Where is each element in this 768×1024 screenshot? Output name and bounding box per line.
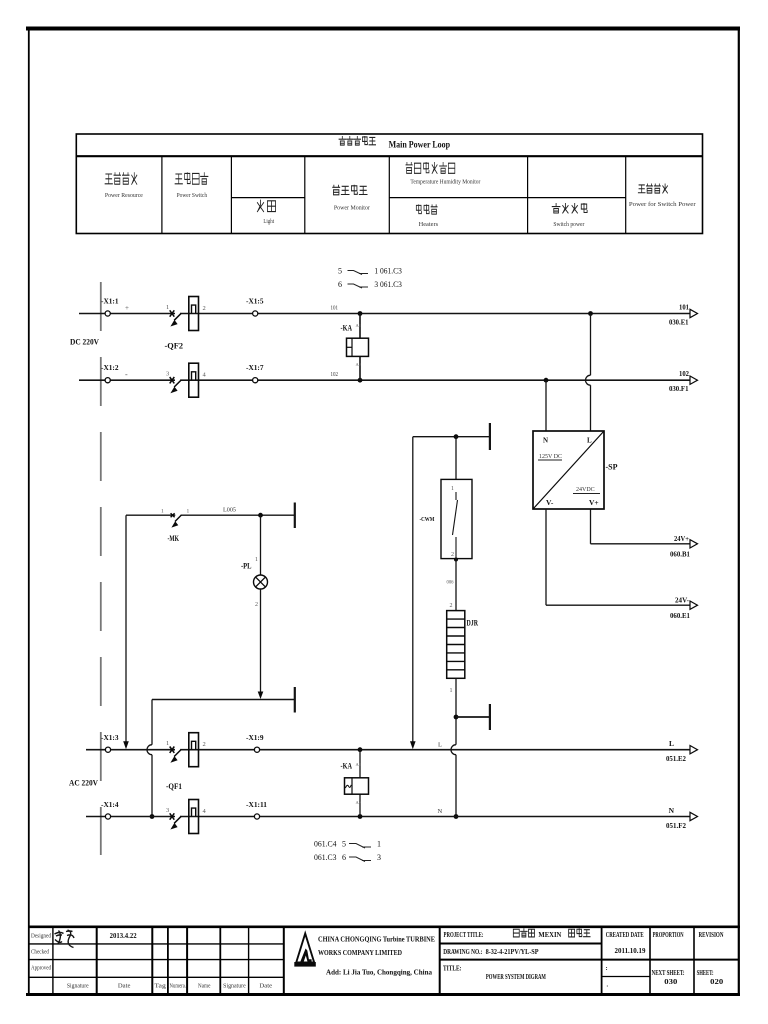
wire 24V- output — [546, 509, 690, 605]
svg-text:V-: V- — [546, 498, 554, 507]
svg-text:6: 6 — [342, 853, 346, 862]
svg-text:-QF1: -QF1 — [166, 782, 182, 791]
svg-text:A2: A2 — [356, 362, 362, 367]
svg-text:061.C3: 061.C3 — [314, 853, 337, 862]
terminal X1:4 — [101, 802, 119, 819]
svg-text:030.F1: 030.F1 — [669, 384, 689, 393]
svg-text:030: 030 — [664, 978, 678, 986]
svg-text:-X1:11: -X1:11 — [246, 802, 268, 809]
svg-text:Designed: Designed — [31, 934, 51, 940]
svg-text:DJR: DJR — [467, 619, 479, 628]
node: L rail / relay KA(AC) — [358, 747, 363, 752]
page link arrow 24V- to 060.E1 — [670, 595, 698, 620]
breaker QF2 pole 2 (pins 3-4) — [166, 363, 207, 397]
svg-text:101: 101 — [331, 306, 339, 312]
svg-text:DRAWING NO.:: DRAWING NO.: — [443, 948, 482, 956]
svg-text:A2: A2 — [356, 800, 362, 805]
wire 24V+ output — [591, 509, 691, 544]
svg-text:061.C4: 061.C4 — [314, 840, 337, 849]
svg-text:3: 3 — [166, 371, 169, 378]
svg-text:POWER SYSTEM DIGRAM: POWER SYSTEM DIGRAM — [486, 972, 546, 981]
svg-text:Name: Name — [198, 983, 211, 989]
contact cross-reference QF2 aux 6-3 to 061.C3 — [338, 280, 402, 289]
node: DJR return on N rail — [454, 814, 459, 819]
bus terminator stub (heater spare) — [456, 716, 490, 718]
terminal X1:2 — [101, 365, 119, 383]
svg-text:1: 1 — [161, 509, 164, 515]
svg-text:-X1:1: -X1:1 — [101, 299, 119, 306]
svg-text:1: 1 — [166, 304, 169, 311]
svg-text:WORKS COMPANY LIMITED: WORKS COMPANY LIMITED — [318, 948, 402, 957]
svg-text:-X1:7: -X1:7 — [246, 365, 264, 372]
wire N (AC neutral rail) — [86, 816, 690, 818]
svg-text:L005: L005 — [223, 507, 236, 514]
wire 102 (DC negative rail) — [79, 379, 690, 381]
wire 101 (DC positive rail) — [79, 313, 690, 315]
svg-text:N: N — [543, 437, 548, 445]
title block — [28, 927, 740, 993]
terminal X1:1 — [101, 299, 119, 317]
wire: lamp return to N — [147, 700, 295, 817]
svg-text:CHINA CHONGQING Turbine TURBIN: CHINA CHONGQING Turbine TURBINE — [318, 935, 435, 944]
sheet cell — [697, 970, 724, 986]
node: heater stub junction — [454, 715, 459, 720]
svg-text:8-32-4-21PV/YL-SP: 8-32-4-21PV/YL-SP — [486, 948, 540, 956]
svg-text:Checked: Checked — [31, 950, 49, 956]
contact cross-reference 061.C4 5-1 — [314, 840, 381, 849]
terminal X1:5 — [246, 299, 264, 317]
bus terminator stub (lighting feed) — [294, 503, 296, 529]
svg-text:1: 1 — [450, 688, 453, 694]
svg-text:Add: Li Jia Tuo, Chongqing, Ch: Add: Li Jia Tuo, Chongqing, China — [326, 970, 433, 977]
terminal X1:7 — [246, 365, 264, 383]
svg-text:Power Switch: Power Switch — [177, 192, 208, 199]
node: wire101 / relay KA branch — [358, 311, 363, 316]
node: lamp return on N rail — [150, 814, 155, 819]
wire: 101 to SP pin L (hops wire 102) — [586, 314, 591, 432]
svg-text:N: N — [438, 808, 443, 815]
svg-text:Signature: Signature — [67, 983, 89, 989]
wire: heater branch top (from L riser) — [410, 437, 490, 750]
svg-text:060.B1: 060.B1 — [670, 550, 690, 559]
svg-text:24V+: 24V+ — [674, 534, 689, 543]
lamp PL (panel light) — [241, 515, 268, 699]
svg-text:102: 102 — [331, 372, 339, 378]
svg-text:125V DC: 125V DC — [539, 454, 562, 460]
svg-text:MEXIN: MEXIN — [538, 931, 561, 939]
svg-text:CREATED DATE: CREATED DATE — [606, 932, 644, 939]
svg-text:Power Resource: Power Resource — [105, 192, 143, 199]
breaker QF1 pole 2 (pins 3-4) — [166, 800, 207, 834]
svg-text:1: 1 — [451, 486, 454, 492]
svg-text:L: L — [669, 739, 674, 748]
wire: 102 to SP pin N — [545, 380, 547, 431]
svg-text:2: 2 — [450, 603, 453, 609]
svg-text:L: L — [438, 742, 442, 749]
svg-text:-X1:2: -X1:2 — [101, 365, 119, 372]
svg-text:TITLE:: TITLE: — [443, 965, 462, 973]
terminal X1:9 — [246, 735, 264, 752]
power supply module SP (125VDC to 24VDC) — [533, 431, 604, 509]
node: wire102 / relay KA branch — [358, 378, 363, 383]
svg-text:-QF2: -QF2 — [165, 342, 184, 351]
svg-text:AC 220V: AC 220V — [69, 779, 98, 788]
svg-text:DC 220V: DC 220V — [70, 338, 99, 347]
svg-text:030.E1: 030.E1 — [669, 318, 689, 327]
function header table — [76, 134, 702, 234]
svg-text:Main Power Loop: Main Power Loop — [389, 141, 451, 151]
wire: L rail riser to lighting switch — [123, 515, 129, 749]
svg-text:1: 1 — [377, 840, 381, 849]
heater element DJR — [447, 611, 478, 679]
svg-text:-PL: -PL — [241, 562, 252, 571]
svg-text:101: 101 — [679, 303, 689, 312]
svg-text:006: 006 — [447, 581, 454, 586]
wire 006 (CWM to DJR) — [447, 559, 457, 611]
terminal X1:3 — [101, 735, 119, 752]
svg-text:PROJECT TITLE:: PROJECT TITLE: — [444, 931, 484, 939]
svg-text:A1: A1 — [356, 762, 362, 767]
svg-text:Date: Date — [118, 983, 131, 989]
svg-text:Tag: Tag — [154, 983, 166, 989]
thermostat contact CWM — [420, 437, 473, 559]
node: wire102 / SP N feed — [544, 378, 549, 383]
svg-text:Switch power: Switch power — [553, 221, 585, 228]
node: CWM feed — [454, 434, 459, 439]
created date cell — [606, 932, 646, 989]
svg-text:-KA: -KA — [341, 762, 353, 771]
bus terminator stub (heater feed) — [489, 423, 491, 450]
svg-text:REVISION: REVISION — [699, 932, 724, 939]
wire L005 lighting feed — [126, 514, 295, 516]
svg-text::: : — [606, 965, 608, 972]
svg-text:6: 6 — [338, 280, 342, 289]
svg-text:2: 2 — [451, 552, 454, 558]
svg-text:A1: A1 — [356, 323, 362, 328]
svg-text:2: 2 — [255, 602, 258, 608]
svg-text:1: 1 — [187, 509, 190, 515]
page link arrow 24V+ to 060.B1 — [670, 534, 698, 559]
wire: DJR to N rail (hops L) — [450, 678, 457, 816]
svg-text:SHEET:: SHEET: — [697, 970, 714, 977]
svg-text:PROPORTION: PROPORTION — [653, 932, 684, 939]
svg-text:-X1:9: -X1:9 — [246, 735, 264, 742]
svg-text:2011.10.19: 2011.10.19 — [615, 947, 646, 955]
svg-text:060.E1: 060.E1 — [670, 611, 690, 620]
svg-text:-X1:4: -X1:4 — [101, 802, 119, 809]
svg-text:Light: Light — [263, 218, 274, 225]
node: wire101 / SP L feed — [588, 311, 593, 316]
svg-text:3: 3 — [166, 807, 169, 814]
svg-text:24V-: 24V- — [675, 595, 689, 604]
svg-text:Approved: Approved — [31, 966, 51, 972]
svg-text:+: + — [125, 304, 129, 312]
contact cross-reference 061.C3 6-3 — [314, 853, 381, 862]
bus terminator stub (lamp return) — [294, 687, 296, 713]
node: CWM bottom pin — [454, 558, 458, 562]
svg-text:1 061.C3: 1 061.C3 — [374, 267, 402, 276]
terminal X1:11 — [246, 802, 268, 819]
svg-text:Power Monitor: Power Monitor — [334, 205, 371, 212]
svg-text:Temperature Humidity Monitor: Temperature Humidity Monitor — [410, 179, 481, 186]
svg-text:24VDC: 24VDC — [576, 487, 595, 493]
svg-text:2013.4.22: 2013.4.22 — [110, 932, 137, 940]
svg-text:3: 3 — [377, 853, 381, 862]
svg-text:-MK: -MK — [168, 534, 180, 543]
next sheet cell — [652, 970, 685, 986]
svg-text:051.E2: 051.E2 — [666, 754, 686, 763]
svg-text:-X1:5: -X1:5 — [246, 299, 264, 306]
page link arrow net 102 to 030.F1 — [669, 369, 698, 393]
svg-text:Numera.: Numera. — [170, 983, 187, 989]
svg-text:L: L — [587, 437, 592, 445]
svg-text:051.F2: 051.F2 — [666, 821, 686, 830]
drawing number cell — [443, 948, 539, 956]
relay coil KA (AC pilot relay) — [341, 750, 369, 817]
company logo — [294, 934, 316, 967]
approval rows — [31, 934, 273, 990]
svg-text:-SP: -SP — [606, 462, 618, 472]
svg-text:2: 2 — [203, 741, 206, 748]
svg-text:1: 1 — [255, 557, 258, 563]
sheet title cell — [443, 965, 546, 982]
svg-text:5: 5 — [342, 840, 346, 849]
svg-text:2: 2 — [203, 305, 206, 312]
node: lamp branch on L005 — [258, 513, 263, 518]
page link arrow L to 051.E2 — [666, 739, 698, 763]
svg-text:-X1:3: -X1:3 — [101, 735, 119, 742]
relay coil KA (DC monitor relay) — [341, 314, 369, 381]
contact cross-reference QF2 aux 5-1 to 061.C3 — [338, 267, 402, 276]
svg-text:V+: V+ — [589, 498, 599, 507]
svg-text:N: N — [669, 806, 675, 815]
breaker QF2 pole 1 (pins 1-2) — [166, 297, 206, 331]
svg-text:Date: Date — [259, 983, 272, 989]
svg-text:020: 020 — [710, 978, 724, 986]
svg-text:-CWM: -CWM — [420, 516, 435, 523]
svg-text:Power for Switch Power: Power for Switch Power — [629, 201, 697, 208]
svg-text:-KA: -KA — [341, 324, 353, 333]
node: N rail / relay KA(AC) — [358, 814, 363, 819]
switch MK (lighting switch) — [161, 509, 190, 543]
svg-text:NEXT SHEET:: NEXT SHEET: — [652, 970, 685, 977]
svg-text:1: 1 — [166, 740, 169, 747]
svg-text:Heaters: Heaters — [419, 221, 439, 228]
wire L (AC live rail) — [86, 749, 690, 751]
svg-text:102: 102 — [679, 369, 689, 378]
designer signature (handwritten) — [55, 930, 75, 948]
svg-text:5: 5 — [338, 267, 342, 276]
dashed panel separator line — [100, 282, 102, 855]
svg-text:3 061.C3: 3 061.C3 — [374, 280, 402, 289]
page link arrow net 101 to 030.E1 — [669, 303, 698, 327]
svg-text:-: - — [125, 370, 128, 379]
svg-text:Signature: Signature — [223, 983, 246, 989]
page link arrow N to 051.F2 — [666, 806, 698, 830]
company name — [318, 935, 435, 977]
project title cell — [444, 931, 484, 939]
breaker QF1 pole 1 (pins 1-2) — [166, 733, 206, 767]
